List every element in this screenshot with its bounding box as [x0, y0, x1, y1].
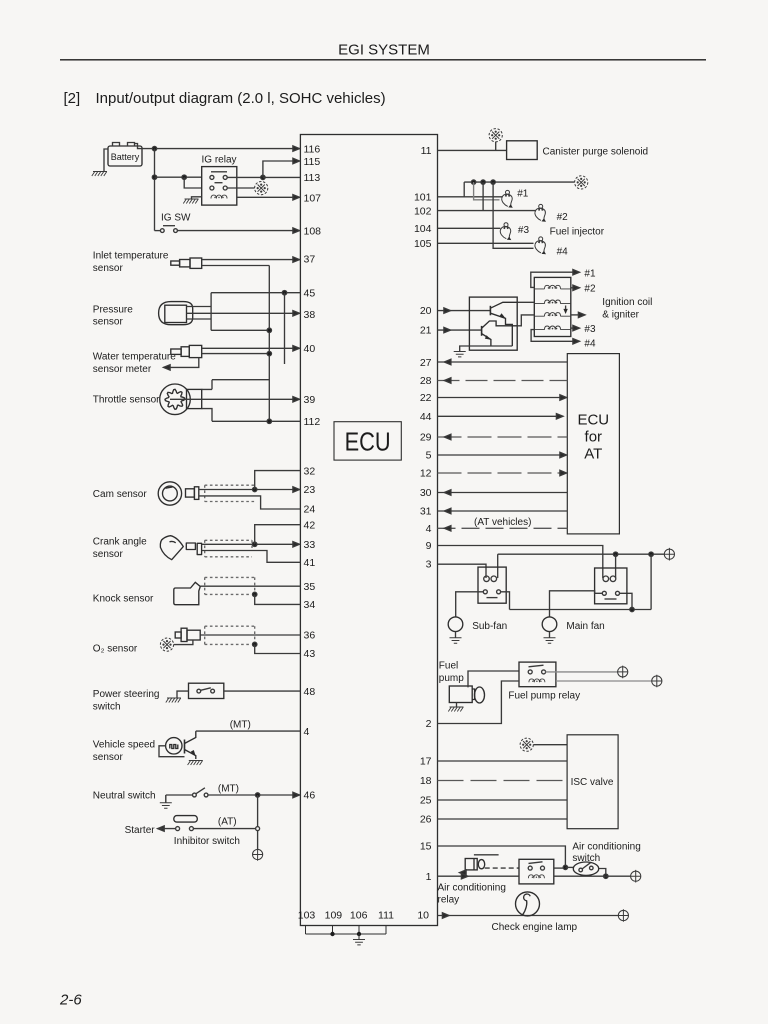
wire pin 27 to AT — [438, 361, 568, 363]
wire pin 10 to battery — [438, 915, 619, 917]
svg-text:46: 46 — [304, 790, 316, 802]
junction dot bus to pin 112 wire — [267, 419, 271, 423]
wire pin 11 to canister solenoid — [438, 149, 507, 151]
svg-text:Battery: Battery — [111, 152, 140, 162]
svg-text:11: 11 — [421, 145, 432, 157]
junction dot relay output — [261, 175, 265, 179]
Main fan motor — [542, 617, 557, 632]
arrow into AT 22 — [560, 395, 567, 400]
svg-text:Cam sensor: Cam sensor — [93, 489, 148, 500]
battery plus lamp — [618, 909, 628, 922]
svg-text:ISC valve: ISC valve — [571, 777, 614, 788]
wire water temp lower terminal to bus — [202, 353, 270, 355]
svg-text:48: 48 — [304, 686, 316, 698]
svg-text:25: 25 — [420, 795, 432, 807]
svg-text:116: 116 — [304, 143, 321, 155]
wire pin 17 to ISC — [438, 760, 568, 762]
power steering switch box — [189, 683, 224, 698]
svg-text:101: 101 — [414, 192, 432, 204]
svg-text:28: 28 — [420, 375, 432, 387]
wire to IG relay upper contact — [155, 176, 202, 178]
wire inlet sensor lower terminal to bus — [202, 265, 270, 267]
wire pin 5 to AT — [438, 454, 567, 456]
svg-text:IG SW: IG SW — [161, 213, 191, 224]
arrow into AT 12 — [560, 470, 567, 475]
rail dot 3 — [491, 180, 495, 184]
wire sub contact out — [501, 592, 510, 610]
svg-text:(MT): (MT) — [230, 720, 251, 731]
svg-text:41: 41 — [304, 557, 316, 569]
svg-text:sensor: sensor — [93, 263, 124, 274]
IG relay coil — [211, 195, 227, 198]
svg-text:#1: #1 — [517, 189, 529, 200]
svg-text:Water temperature: Water temperature — [93, 352, 176, 363]
title rule — [60, 59, 706, 61]
svg-text:#3: #3 — [584, 324, 596, 335]
svg-text:30: 30 — [420, 487, 432, 499]
arrow into AT 44 — [556, 414, 563, 419]
svg-text:4: 4 — [304, 726, 310, 738]
svg-text:(AT): (AT) — [218, 817, 237, 828]
wire relay contact to battery — [546, 671, 618, 673]
left pin labels — [304, 143, 322, 801]
O2 heater fuse — [160, 638, 173, 651]
Sub-fan motor — [448, 617, 463, 632]
wire pin 22 to AT — [438, 397, 567, 399]
starter arrow — [158, 826, 165, 831]
svg-text:39: 39 — [304, 394, 316, 406]
svg-text:37: 37 — [304, 254, 316, 266]
wire shield to pin 43 — [255, 644, 301, 653]
stub vertical from 45 junction — [284, 293, 286, 364]
svg-text:pump: pump — [439, 673, 464, 684]
svg-text:15: 15 — [420, 841, 432, 853]
A/C relay box — [519, 859, 554, 884]
wire relay contact to switch junction — [554, 867, 566, 869]
check engine lamp — [516, 892, 540, 916]
pressure sensor top terminal wire — [187, 306, 212, 308]
knock sensor symbol — [174, 582, 201, 604]
svg-text:105: 105 — [414, 238, 432, 250]
svg-text:112: 112 — [304, 416, 321, 428]
ECU label box — [334, 422, 401, 460]
coil row 3 — [534, 313, 571, 317]
rail dot 1 — [471, 180, 475, 184]
arrow into AT 5 — [560, 452, 567, 457]
battery plus inhibitor — [253, 848, 263, 861]
sub relay contacts — [483, 590, 500, 598]
wire bracket bottom to bus — [211, 329, 269, 331]
ground stub below bus — [358, 934, 360, 940]
junction dot on pin 45 wire — [282, 291, 286, 295]
wire to IG SW — [155, 230, 161, 232]
fuel relay blade — [529, 665, 544, 667]
arrow into pin 23 — [293, 487, 300, 492]
coil row 2 — [534, 300, 571, 304]
main relay coil circles — [603, 576, 616, 582]
water temp sensor symbol — [171, 345, 202, 357]
svg-text:Air conditioning: Air conditioning — [572, 842, 640, 853]
svg-text:42: 42 — [304, 519, 316, 531]
down arrow inside coil box — [565, 306, 567, 313]
svg-text:45: 45 — [304, 287, 316, 299]
wire junction to pin 113 — [263, 176, 301, 178]
fuse ISC — [520, 738, 533, 751]
svg-text:Sub-fan: Sub-fan — [472, 621, 507, 632]
junction dot AC battery — [604, 874, 608, 878]
bottom pin labels — [298, 910, 394, 922]
injector 1 — [502, 190, 513, 207]
dropper 2 — [482, 182, 484, 211]
wire inhibitor to junction — [193, 828, 255, 830]
svg-text:ECU: ECU — [345, 427, 391, 457]
sub fan relay box — [478, 567, 506, 603]
wire cam lower to pin 24 — [199, 496, 301, 509]
svg-text:104: 104 — [414, 223, 432, 235]
neutral switch contacts — [193, 788, 209, 797]
wire pin 102 to injector 2 — [438, 210, 536, 212]
svg-text:Inhibitor switch: Inhibitor switch — [174, 836, 240, 847]
right pin labels — [414, 145, 432, 921]
svg-text:sensor: sensor — [93, 752, 124, 763]
arrow on pin 20 wire — [444, 308, 451, 313]
main relay output elbow — [620, 593, 633, 609]
pin 109 stub — [332, 926, 334, 935]
fuse stub — [495, 142, 497, 151]
ECU for AT box — [567, 354, 619, 534]
throttle top terminal wire — [202, 380, 212, 390]
svg-text:#2: #2 — [584, 284, 596, 295]
junction dot on bus pressure — [267, 328, 271, 332]
fuel pump motor — [449, 686, 484, 703]
battery plus AC — [631, 870, 641, 883]
svg-text:Starter: Starter — [125, 825, 156, 836]
arrow coil output 1 — [573, 270, 580, 275]
wire IG SW to pin 108 — [177, 230, 300, 232]
svg-text:(AT vehicles): (AT vehicles) — [474, 517, 531, 528]
arrow at pin 31 — [444, 508, 451, 513]
wire pin 12 to AT — [438, 472, 567, 474]
igniter internal ground rail — [466, 345, 512, 347]
arrow at pin 28 — [444, 378, 451, 383]
wire pin 30 to AT — [438, 492, 568, 494]
svg-text:Power steering: Power steering — [93, 689, 160, 700]
svg-text:44: 44 — [420, 411, 432, 423]
ECU ground — [353, 940, 365, 945]
IG relay box — [202, 167, 237, 206]
wire AC switch output — [599, 869, 606, 877]
dropper 3 — [493, 182, 533, 248]
battery plus fuel 1 — [618, 666, 628, 679]
main fan ground — [549, 632, 551, 638]
junction dot relay lower feed — [182, 175, 186, 179]
pressure sensor bracket vertical — [210, 293, 212, 331]
PS switch ground — [166, 698, 181, 703]
wire crank to pin 33 — [202, 543, 301, 545]
coil output 1 loop — [531, 272, 577, 287]
IG relay coil ground stub — [192, 197, 202, 199]
svg-text:34: 34 — [304, 599, 316, 611]
svg-text:115: 115 — [304, 156, 321, 168]
svg-text:Neutral switch: Neutral switch — [93, 791, 156, 802]
drop to contact rail — [650, 554, 652, 609]
arrow at pin 30 — [444, 490, 451, 495]
junction on bus at 106 — [357, 932, 361, 936]
arrow into pin 108 — [293, 228, 300, 233]
coil output 4 loop — [531, 330, 577, 342]
arrow into pin 46 — [293, 792, 300, 797]
ignition coil box — [534, 277, 571, 336]
svg-text:26: 26 — [420, 814, 432, 826]
wire neutral switch to pin 46 — [208, 794, 300, 796]
svg-text:29: 29 — [420, 432, 432, 444]
dot main output — [630, 607, 634, 611]
inhibitor contacts — [176, 827, 194, 831]
wire crank lower to pin 41 — [202, 551, 301, 563]
svg-text:Pressure: Pressure — [93, 305, 133, 316]
cam shield dashed box — [205, 485, 256, 501]
sub relay coil circles — [484, 576, 497, 582]
wire pin 4 to AT — [438, 527, 568, 529]
A/C switch contacts — [579, 863, 593, 872]
svg-text:38: 38 — [304, 309, 316, 321]
svg-text:3: 3 — [426, 559, 432, 571]
svg-text:switch: switch — [93, 702, 121, 713]
wire junction to battery — [606, 875, 631, 877]
battery terminal left — [113, 143, 120, 147]
arrow at pin 27 — [444, 359, 451, 364]
arrow coil output 2 — [573, 285, 580, 290]
wire junction up to pin 115 — [263, 161, 301, 177]
junction dot relay feed — [152, 175, 156, 179]
svg-text:sensor meter: sensor meter — [93, 364, 152, 375]
PS switch contacts — [197, 688, 215, 693]
arrow into pin 115 — [293, 158, 300, 163]
arrow coil output mid — [578, 312, 585, 317]
svg-text:AT: AT — [584, 446, 602, 463]
throttle top loop to bus — [212, 379, 269, 381]
svg-text:36: 36 — [304, 630, 316, 642]
ISC valve box — [567, 735, 618, 829]
arrow on pin 21 wire — [444, 327, 451, 332]
wire compressor to relay — [485, 867, 519, 869]
coil output 3 — [571, 327, 577, 329]
O2 shield dashed box — [205, 626, 255, 644]
igniter ground — [460, 346, 466, 352]
IG SW contact circles — [160, 229, 177, 233]
wire pin 3 — [438, 564, 487, 578]
throttle middle wire to pin 39 — [170, 398, 300, 400]
compressor arrow — [462, 872, 467, 874]
wire igniter to coil row3 — [517, 315, 534, 326]
arrow into pin 116 — [293, 146, 300, 151]
rail dot contact feed — [649, 552, 653, 556]
svg-text:Fuel: Fuel — [439, 661, 458, 672]
wire water temp to pin 40 — [202, 347, 301, 349]
fuel relay contacts — [528, 670, 545, 674]
wire pin 44 to AT — [438, 415, 564, 417]
left common bus vertical — [268, 266, 270, 422]
svg-text:relay: relay — [438, 895, 460, 906]
wire fuse to O2 sensor — [174, 640, 193, 645]
IG relay blade bar — [211, 171, 227, 173]
rail elbow sub coil — [497, 554, 499, 578]
svg-text:1: 1 — [426, 871, 432, 883]
wire relay coil to pin 2 — [438, 681, 520, 724]
arrow into pin 37 — [293, 257, 300, 262]
IG relay contact circles — [210, 175, 227, 190]
A/C relay coil — [528, 875, 544, 878]
arrow to meter — [164, 365, 171, 370]
svg-text:& igniter: & igniter — [602, 310, 639, 321]
coil output mid — [571, 314, 583, 316]
svg-text:Inlet temperature: Inlet temperature — [93, 251, 169, 262]
junction dot O2 shield drain — [253, 642, 257, 646]
wire junction up to pin 42 — [255, 525, 301, 545]
fuse canister — [489, 129, 502, 142]
junction dot switch feed — [563, 865, 567, 869]
injector 4 — [535, 237, 546, 254]
svg-text:43: 43 — [304, 648, 316, 660]
arrow on pin 1 wire — [461, 874, 468, 879]
igniter transistor Q1 — [490, 302, 517, 346]
svg-text:24: 24 — [304, 504, 316, 516]
svg-text:IG relay: IG relay — [202, 155, 237, 166]
junction dot battery feed — [152, 146, 156, 150]
svg-text:108: 108 — [304, 225, 322, 237]
wire main contact to fan — [550, 591, 603, 617]
wire relay output to junction — [227, 176, 263, 178]
wire pulse gen loop — [159, 746, 185, 757]
wire pin 29 to AT — [438, 436, 568, 438]
arrow into pin 40 — [293, 346, 300, 351]
svg-text:103: 103 — [298, 910, 316, 922]
svg-text:4: 4 — [426, 523, 432, 535]
svg-text:Ignition coil: Ignition coil — [602, 297, 652, 308]
svg-text:111: 111 — [378, 910, 394, 922]
fuel relay coil — [529, 679, 545, 682]
svg-text:sensor: sensor — [93, 317, 124, 328]
wire junction up to pin 32 — [255, 471, 301, 490]
svg-text:Knock sensor: Knock sensor — [93, 594, 154, 605]
wire pin 9 — [438, 546, 603, 579]
compressor top line — [474, 854, 499, 856]
wire shield to pin 34 — [255, 594, 301, 604]
svg-text:5: 5 — [426, 450, 432, 462]
wire O2 to pin 36 — [200, 634, 300, 636]
svg-text:Fuel pump relay: Fuel pump relay — [508, 691, 580, 702]
svg-text:#3: #3 — [518, 225, 530, 236]
svg-text:#2: #2 — [557, 212, 569, 223]
neutral switch ground — [165, 795, 167, 803]
wire pin 15 — [438, 846, 566, 867]
svg-text:#4: #4 — [584, 339, 596, 350]
arrow into pin 39 — [293, 397, 300, 402]
crank shield dashed box — [205, 540, 252, 557]
svg-text:#1: #1 — [584, 269, 596, 280]
main relay contacts — [602, 591, 619, 599]
wire pin 105 to injector 4 — [438, 242, 534, 244]
arrow coil output 4 — [573, 339, 580, 344]
inlet temp sensor symbol — [171, 258, 202, 268]
svg-text:18: 18 — [420, 775, 432, 787]
wire pin 21 to igniter — [438, 329, 482, 331]
svg-text:27: 27 — [420, 357, 432, 369]
svg-text:Throttle sensor: Throttle sensor — [93, 395, 160, 406]
wire fuse to ISC — [533, 744, 567, 746]
svg-text:[2]: [2] — [64, 90, 81, 107]
throttle sensor symbol — [160, 384, 202, 415]
rail left elbow — [463, 182, 465, 197]
svg-text:Air conditioning: Air conditioning — [438, 883, 506, 894]
cam sensor symbol — [158, 482, 199, 505]
rail dot main coil — [613, 552, 617, 556]
svg-text:Vehicle speed: Vehicle speed — [93, 740, 155, 751]
pressure sensor bottom terminal wire — [187, 318, 212, 320]
canister purge solenoid box — [507, 141, 538, 160]
junction dot on pin 33 wire — [253, 542, 257, 546]
injector 2 — [535, 204, 546, 221]
bottom ground bus — [306, 933, 387, 935]
svg-text:12: 12 — [420, 468, 432, 480]
wire PS switch to pin 48 — [224, 690, 301, 692]
coil output 2 — [571, 287, 577, 289]
arrow into pin 107 — [293, 195, 300, 200]
pressure sensor middle wire to pin 38 — [187, 312, 301, 314]
svg-text:Check engine lamp: Check engine lamp — [492, 922, 578, 933]
svg-text:21: 21 — [420, 325, 432, 337]
battery ground — [92, 172, 107, 177]
svg-text:23: 23 — [304, 484, 316, 496]
IG relay ground — [183, 199, 198, 204]
arrow at pin 29 — [444, 434, 451, 439]
wire pin 26 to ISC — [438, 818, 568, 820]
svg-text:33: 33 — [304, 539, 316, 551]
wire inlet sensor to pin 37 — [202, 259, 301, 261]
A/C switch oval — [573, 862, 598, 875]
svg-text:Canister purge solenoid: Canister purge solenoid — [543, 147, 649, 158]
wire pin 25 to ISC — [438, 799, 568, 801]
svg-text:10: 10 — [417, 910, 429, 922]
wire junction to AC switch — [565, 866, 573, 868]
IG SW blade — [163, 225, 175, 227]
rail dot 2 — [481, 180, 485, 184]
fuse at IG relay — [255, 182, 268, 195]
svg-text:9: 9 — [426, 540, 432, 552]
junction on bus at 109 — [330, 932, 334, 936]
pin 103 stub — [305, 926, 307, 935]
wire branch to relay lower contact — [184, 177, 202, 188]
junction dot on bus water temp — [267, 351, 271, 355]
ECU for AT label — [577, 412, 609, 463]
svg-text:#4: #4 — [557, 247, 569, 258]
wire battery vertical drop — [154, 149, 156, 231]
injector supply rail — [464, 181, 574, 183]
vehicle speed transistor — [185, 731, 196, 759]
fan supply rail — [498, 553, 665, 555]
svg-text:2-6: 2-6 — [59, 992, 82, 1009]
svg-text:Input/output diagram (2.0 l, S: Input/output diagram (2.0 l, SOHC vehicl… — [96, 90, 386, 107]
O2 sensor symbol — [175, 628, 200, 641]
inhibitor switch housing — [174, 816, 198, 823]
svg-text:109: 109 — [325, 910, 343, 922]
wire relay to fuse — [227, 187, 254, 189]
arrow on pin 10 wire — [442, 913, 449, 918]
wire bracket to pin 45 — [211, 292, 300, 294]
igniter box — [469, 297, 517, 350]
A/C relay blade — [529, 862, 543, 864]
pin 106 stub — [358, 926, 360, 935]
